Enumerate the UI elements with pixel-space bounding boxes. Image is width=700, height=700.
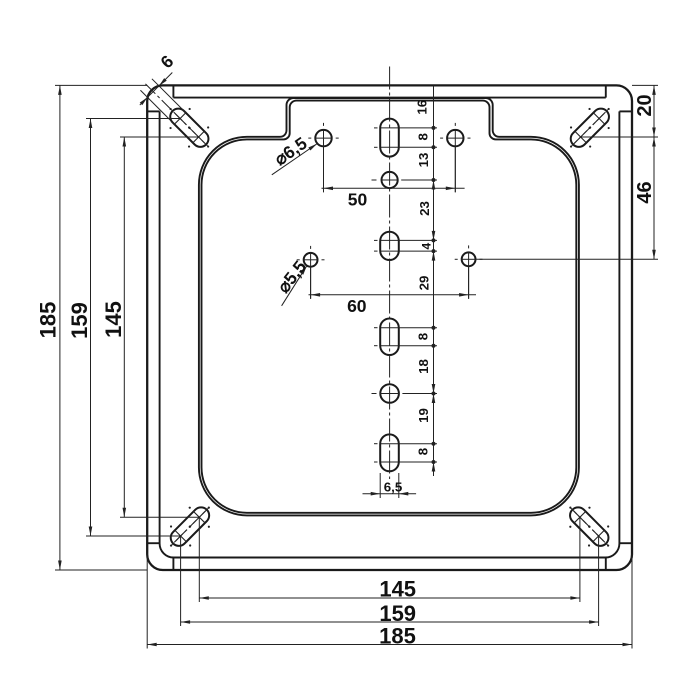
svg-text:185: 185 [35, 302, 60, 339]
svg-text:19: 19 [416, 408, 431, 423]
svg-text:18: 18 [416, 359, 431, 374]
svg-text:145: 145 [379, 576, 416, 601]
svg-text:159: 159 [379, 601, 416, 626]
svg-text:50: 50 [348, 190, 368, 210]
svg-text:145: 145 [101, 301, 126, 338]
svg-text:13: 13 [416, 153, 431, 168]
svg-text:185: 185 [379, 623, 416, 648]
svg-text:4: 4 [420, 243, 434, 250]
svg-text:159: 159 [67, 302, 92, 339]
svg-text:8: 8 [415, 133, 430, 140]
svg-text:8: 8 [415, 448, 430, 455]
svg-text:46: 46 [634, 181, 656, 203]
svg-text:16: 16 [415, 100, 430, 115]
svg-text:29: 29 [417, 276, 432, 291]
svg-text:6,5: 6,5 [384, 479, 403, 494]
svg-text:8: 8 [415, 333, 430, 340]
svg-text:23: 23 [417, 201, 432, 216]
svg-text:60: 60 [347, 296, 367, 316]
svg-text:20: 20 [634, 94, 656, 116]
